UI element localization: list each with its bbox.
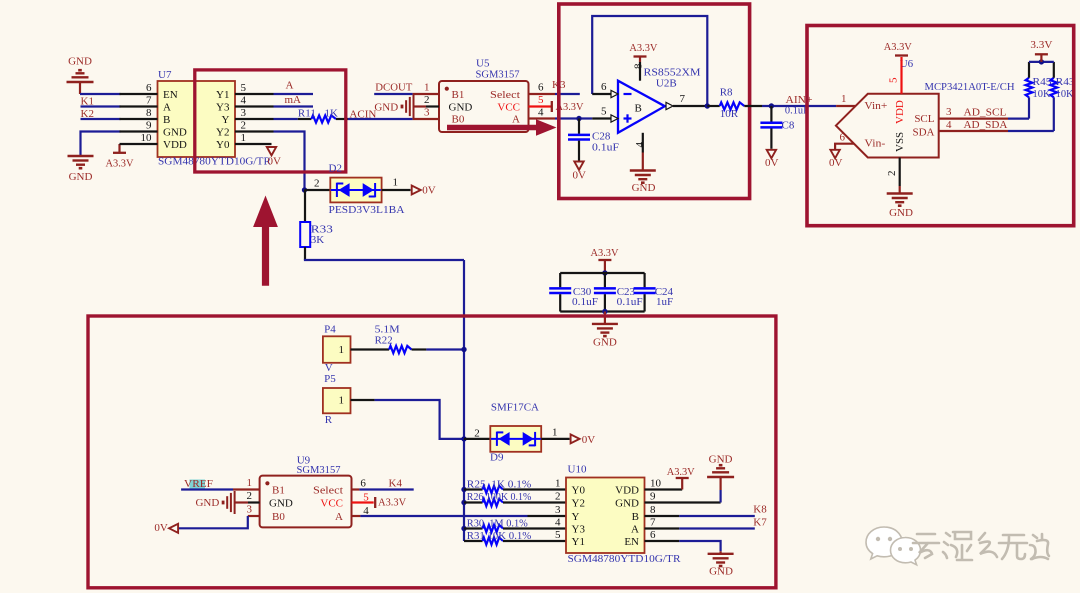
svg-text:Y2: Y2 (572, 498, 585, 510)
capacitor C30 0.1uF (559, 273, 561, 287)
svg-text:0V: 0V (573, 170, 587, 182)
svg-text:4: 4 (555, 517, 561, 529)
power 0V (C8) (767, 150, 776, 158)
svg-text:3: 3 (241, 107, 247, 119)
resistor R43 10K (1050, 78, 1057, 98)
svg-text:SGM3157: SGM3157 (297, 464, 341, 476)
svg-text:5: 5 (241, 82, 247, 94)
svg-text:RS8552XM: RS8552XM (644, 66, 701, 78)
wire R33 to main vertical (305, 259, 464, 260)
svg-text:Select: Select (490, 89, 520, 101)
svg-text:GND: GND (709, 566, 733, 578)
power 3.3V (1040, 55, 1042, 62)
svg-text:AD_SCL: AD_SCL (964, 106, 1007, 118)
svg-text:GND: GND (449, 101, 473, 113)
watermark wechat icon (866, 527, 921, 565)
svg-text:R11: R11 (298, 107, 316, 119)
node K7 (U10 pin7) (645, 527, 680, 529)
U7 pin 1 Y0 (235, 143, 272, 145)
node VREF (U9 pin1) (190, 480, 206, 491)
svg-text:B: B (632, 511, 639, 523)
junction D9/bus (461, 436, 466, 441)
svg-text:3: 3 (555, 504, 561, 516)
op-amp U2B RS8552XM (618, 81, 665, 133)
U7 pin 2 Y2 (235, 130, 274, 132)
svg-text:Y3: Y3 (572, 524, 586, 536)
wire cap bank top rail (560, 272, 644, 274)
svg-text:B0: B0 (452, 114, 465, 126)
svg-text:1: 1 (339, 395, 345, 407)
wire ACIN to U5 pin3 (348, 118, 413, 120)
svg-text:GND: GND (889, 207, 913, 219)
wire pullup tops (1028, 62, 1030, 78)
wire net A (274, 93, 314, 95)
wire main vertical bus (463, 260, 465, 541)
svg-text:0V: 0V (829, 157, 843, 169)
power 0V (D2 pin1) (412, 186, 421, 195)
svg-text:1: 1 (339, 344, 345, 356)
resistor R26 100K 0.1% (464, 501, 483, 503)
junction R25 (461, 487, 466, 492)
svg-text:Vin-: Vin- (864, 138, 885, 150)
svg-text:1: 1 (555, 478, 561, 490)
U7 pin 9 GND (120, 130, 158, 132)
svg-text:SGM3157: SGM3157 (476, 69, 520, 81)
resistor R11 1K (274, 118, 298, 120)
U9 pin3 B0 to 0V (248, 515, 260, 517)
svg-text:EN: EN (163, 89, 178, 101)
svg-text:GND: GND (374, 101, 398, 113)
junction 3.3V (1039, 59, 1044, 64)
svg-text:2: 2 (886, 171, 898, 177)
svg-text:A3.3V: A3.3V (884, 41, 912, 53)
svg-text:A: A (631, 524, 639, 536)
U9 pin4 A output (352, 515, 361, 517)
junction cap bank top (602, 270, 607, 275)
ground GND (cap bank) (604, 312, 606, 324)
power A3.3V (U5 pin5 VCC) (529, 105, 552, 107)
U6 pin3 SCL / net AD_SCL (939, 117, 1008, 119)
svg-text:Y0: Y0 (572, 485, 586, 497)
svg-text:1: 1 (552, 427, 558, 439)
svg-text:4: 4 (946, 119, 952, 131)
svg-text:A: A (335, 511, 343, 523)
svg-text:0V: 0V (582, 434, 596, 446)
svg-text:Y1: Y1 (572, 536, 585, 548)
svg-text:0V: 0V (154, 522, 168, 534)
svg-text:U10: U10 (568, 464, 587, 476)
frame around U6 (807, 26, 1074, 226)
node K8 (U10 pin8) (645, 515, 680, 517)
svg-text:7: 7 (680, 93, 686, 105)
svg-text:Y0: Y0 (216, 139, 230, 151)
svg-text:PESD3V3L1BA: PESD3V3L1BA (329, 204, 405, 216)
svg-text:U2B: U2B (656, 78, 677, 90)
svg-text:VCC: VCC (497, 101, 520, 113)
wire P5 to D9 (351, 399, 375, 401)
power 0V (U9 pin3) (169, 524, 178, 533)
ADC U6 MCP3421A0T-E/CH (836, 94, 939, 158)
mux U9 SGM3157 (260, 476, 352, 528)
svg-text:3K: 3K (311, 234, 325, 246)
svg-text:0V: 0V (422, 184, 436, 196)
svg-text:GND: GND (68, 56, 92, 68)
svg-text:A3.3V: A3.3V (667, 466, 695, 478)
power 0V (C28) (574, 162, 583, 170)
junction R22/bus (461, 347, 466, 352)
resistor R33 3K (304, 190, 306, 222)
wire R8 to U6 (762, 105, 836, 107)
svg-text:3: 3 (424, 107, 430, 119)
U7 pin 8 B (120, 118, 158, 120)
svg-text:mA: mA (285, 94, 302, 106)
svg-text:1uF: 1uF (656, 296, 673, 308)
U2B pin5 non-inverting input (592, 117, 611, 119)
annotation arrow right (447, 119, 557, 135)
U7 pin 3 Y (235, 118, 274, 120)
svg-text:10: 10 (650, 478, 662, 490)
resistor R30 1M 0.1% (464, 527, 483, 529)
capacitor C24 1uF (643, 273, 645, 287)
svg-text:1: 1 (841, 93, 847, 105)
svg-text:P5: P5 (324, 373, 336, 385)
resistor R25 1K 0.1% (464, 488, 483, 490)
svg-text:2: 2 (424, 94, 430, 106)
svg-text:3: 3 (946, 106, 952, 118)
ground GND (U10 pin9) (645, 501, 721, 503)
svg-text:GND: GND (195, 497, 219, 509)
svg-text:Y1: Y1 (216, 89, 229, 101)
diode D2 PESD3V3L1BA (305, 189, 331, 191)
svg-text:0.1uF: 0.1uF (572, 296, 598, 308)
capacitor C28 0.1uF (578, 119, 580, 134)
svg-text:8: 8 (146, 107, 152, 119)
watermark text (913, 532, 1049, 560)
svg-text:7: 7 (146, 95, 152, 107)
U6 pin6 Vin- to 0V (835, 144, 854, 150)
svg-text:4: 4 (241, 94, 247, 106)
svg-text:8: 8 (650, 504, 656, 516)
node K3 (U5 pin6) (529, 93, 556, 95)
svg-text:6: 6 (601, 81, 607, 93)
power 0V (D9 pin1) (571, 434, 580, 443)
U2B pin7 output (666, 102, 673, 109)
U6 pin1 Vin+ (836, 105, 855, 107)
U7 pin 7 A (120, 105, 158, 107)
svg-text:R26 100K 0.1%: R26 100K 0.1% (467, 491, 532, 503)
svg-text:10: 10 (141, 132, 153, 144)
svg-text:2: 2 (314, 177, 320, 189)
svg-text:3: 3 (247, 503, 253, 515)
svg-text:6: 6 (650, 529, 656, 541)
svg-text:B: B (635, 102, 642, 114)
svg-text:SGM48780YTD10G/TR: SGM48780YTD10G/TR (568, 553, 682, 565)
svg-text:B1: B1 (452, 89, 465, 101)
U2B pin8 V+ / power A3.3V (639, 62, 641, 81)
svg-text:VDD: VDD (894, 100, 906, 124)
junction AIN+/C8 (769, 103, 774, 108)
wire feedback loop U2B (592, 16, 707, 106)
svg-text:DCOUT: DCOUT (375, 82, 412, 94)
wire net mA (274, 105, 314, 107)
svg-text:D2: D2 (329, 162, 342, 174)
power A3.3V (U9 pin5) (352, 501, 374, 503)
IC U10 SGM48780YTD10G/TR (566, 478, 645, 554)
svg-text:VDD: VDD (615, 485, 639, 497)
U7 pin 6 EN (120, 93, 158, 95)
svg-text:1: 1 (241, 132, 247, 144)
svg-text:GND: GND (269, 497, 293, 509)
svg-text:0V: 0V (765, 157, 779, 169)
junction cap bank bottom (602, 309, 607, 314)
svg-text:6: 6 (538, 82, 544, 94)
power 0V (U7 pin1 Y0) (267, 147, 276, 155)
U7 pin 10 VDD (120, 143, 158, 145)
svg-text:GND: GND (163, 127, 187, 139)
svg-text:VCC: VCC (320, 497, 343, 509)
svg-text:GND: GND (593, 337, 617, 349)
ground GND bars (U9 pin2) (248, 501, 260, 503)
svg-text:U7: U7 (158, 69, 172, 81)
svg-text:GND: GND (632, 182, 656, 194)
svg-text:9: 9 (650, 491, 656, 503)
svg-text:K8: K8 (753, 504, 767, 516)
wire U9-A to U10 pin3 (360, 515, 527, 517)
svg-text:R25 1K 0.1%: R25 1K 0.1% (467, 479, 532, 491)
svg-text:0V: 0V (268, 155, 282, 167)
svg-text:7: 7 (650, 517, 656, 529)
svg-text:A3.3V: A3.3V (629, 42, 657, 54)
node K4 (U9 pin6) (352, 488, 360, 490)
connector P5 (323, 388, 351, 413)
U6 pin5 VDD / power A3.3V (900, 57, 902, 94)
ground GND (U10 pin6 EN) (645, 540, 680, 542)
U5 pin4 A output (529, 117, 556, 119)
svg-text:D9: D9 (490, 452, 504, 464)
svg-text:9: 9 (146, 120, 152, 132)
junction R26 (461, 500, 466, 505)
svg-text:6: 6 (840, 132, 846, 144)
resistor R45 10K (1026, 78, 1033, 98)
svg-text:VDD: VDD (163, 139, 187, 151)
svg-text:5: 5 (363, 492, 369, 504)
svg-text:6: 6 (146, 82, 152, 94)
svg-text:P4: P4 (324, 324, 336, 336)
svg-text:8: 8 (633, 63, 645, 69)
svg-text:Y3: Y3 (216, 102, 230, 114)
svg-text:GND: GND (69, 171, 93, 183)
svg-text:SGM48780YTD10G/TR: SGM48780YTD10G/TR (158, 155, 272, 167)
capacitor C8 0.1uF (770, 106, 772, 122)
svg-text:SDA: SDA (912, 126, 934, 138)
wire K2 (81, 118, 121, 120)
svg-text:0.1uF: 0.1uF (617, 296, 643, 308)
svg-text:2: 2 (474, 428, 480, 440)
svg-text:10R: 10R (720, 108, 739, 120)
svg-text:R8: R8 (720, 87, 733, 99)
resistor R31 10K 0.1% (464, 540, 483, 542)
svg-text:C8: C8 (782, 119, 795, 131)
svg-text:K4: K4 (389, 478, 403, 490)
capacitor C23 0.1uF (604, 273, 606, 287)
svg-text:A3.3V: A3.3V (378, 497, 406, 509)
svg-text:5: 5 (601, 106, 607, 118)
ground GND (U6) (887, 192, 913, 194)
svg-text:R31 10K 0.1%: R31 10K 0.1% (467, 530, 532, 542)
svg-text:5: 5 (538, 94, 544, 106)
ground GND bars (U5 pin2) (426, 105, 439, 107)
svg-text:4: 4 (538, 107, 544, 119)
U6 pin4 SDA / net AD_SDA (939, 130, 1008, 132)
svg-text:A: A (286, 79, 294, 91)
wire R22 to bus (426, 348, 464, 350)
wire K1 (81, 105, 121, 107)
U5 pin3 stub (413, 118, 439, 120)
svg-text:6: 6 (360, 478, 366, 490)
svg-text:SCL: SCL (914, 113, 934, 125)
svg-text:K7: K7 (753, 516, 767, 528)
svg-text:GND: GND (615, 498, 639, 510)
frame around op-amp (559, 4, 750, 199)
diode D9 SMF17CA (464, 438, 490, 440)
wire cap bank bottom rail (560, 310, 644, 312)
svg-text:1: 1 (393, 176, 399, 188)
frame around U7 outputs (195, 70, 346, 172)
IC U7 SGM48780YTD10G/TR (158, 81, 236, 157)
svg-text:2: 2 (555, 491, 561, 503)
svg-text:A: A (512, 114, 520, 126)
junction U2B output (705, 103, 710, 108)
junction R30 (461, 526, 466, 531)
svg-text:R: R (325, 414, 333, 426)
U2B pin6 inverting input (592, 93, 611, 95)
mux U5 SGM3157 (439, 81, 529, 132)
ground GND (below K2) (68, 155, 94, 157)
power 0V (U6 pin6) (830, 150, 839, 158)
U7 pin 4 Y3 (235, 105, 274, 107)
svg-text:1: 1 (424, 82, 430, 94)
svg-text:A3.3V: A3.3V (591, 247, 619, 259)
svg-text:GND: GND (709, 454, 733, 466)
svg-text:Y: Y (222, 114, 230, 126)
svg-text:2: 2 (241, 119, 247, 131)
wire U7 pin9 to GND (81, 132, 121, 156)
wire U7 pin2 down to D2 junction (274, 132, 305, 191)
svg-text:SMF17CA: SMF17CA (491, 402, 539, 414)
svg-text:1: 1 (247, 477, 253, 489)
svg-text:Y2: Y2 (216, 127, 229, 139)
svg-text:R30 1M 0.1%: R30 1M 0.1% (467, 518, 528, 530)
svg-text:B1: B1 (272, 484, 285, 496)
svg-text:5: 5 (888, 77, 900, 83)
svg-text:Select: Select (313, 484, 343, 496)
junction D2/R33 (302, 187, 307, 192)
wire U7 pin6 to GND (80, 93, 121, 95)
svg-text:Vin+: Vin+ (864, 100, 887, 112)
U7 pin 5 Y1 (235, 93, 274, 95)
svg-text:R22: R22 (375, 334, 393, 346)
svg-text:5: 5 (555, 529, 561, 541)
resistor R8 10R (707, 105, 719, 107)
svg-text:0.1uF: 0.1uF (592, 141, 619, 153)
ground GND (U2B) (630, 169, 656, 171)
svg-text:10K: 10K (1056, 88, 1074, 100)
frame around bottom circuit (88, 316, 776, 588)
resistor R22 5.1M (351, 348, 390, 350)
svg-text:2: 2 (247, 490, 253, 502)
U2B pin4 V- / ground (642, 133, 644, 153)
svg-text:A: A (163, 102, 171, 114)
svg-text:1K: 1K (325, 107, 339, 119)
power A3.3V (U10 pin10) (645, 488, 683, 490)
svg-text:B0: B0 (272, 511, 285, 523)
wire SCL up to R45 (1028, 97, 1030, 118)
power A3.3V (U7 pin10) (118, 144, 120, 153)
svg-text:3.3V: 3.3V (1030, 39, 1052, 51)
svg-text:VSS: VSS (894, 132, 906, 152)
svg-text:4: 4 (634, 142, 646, 148)
svg-text:A3.3V: A3.3V (106, 158, 134, 170)
connector P4 (323, 336, 351, 363)
U6 pin2 VSS / ground (899, 158, 901, 187)
junction U5-A / C28 (576, 116, 581, 121)
svg-text:MCP3421A0T-E/CH: MCP3421A0T-E/CH (925, 81, 1015, 93)
annotation arrow up (253, 196, 278, 286)
svg-text:Y: Y (572, 511, 580, 523)
svg-text:EN: EN (624, 536, 639, 548)
svg-text:AD_SDA: AD_SDA (964, 119, 1008, 131)
svg-text:B: B (163, 114, 170, 126)
wire SDA up to R43 (1053, 97, 1055, 131)
svg-text:R45: R45 (1033, 76, 1053, 88)
